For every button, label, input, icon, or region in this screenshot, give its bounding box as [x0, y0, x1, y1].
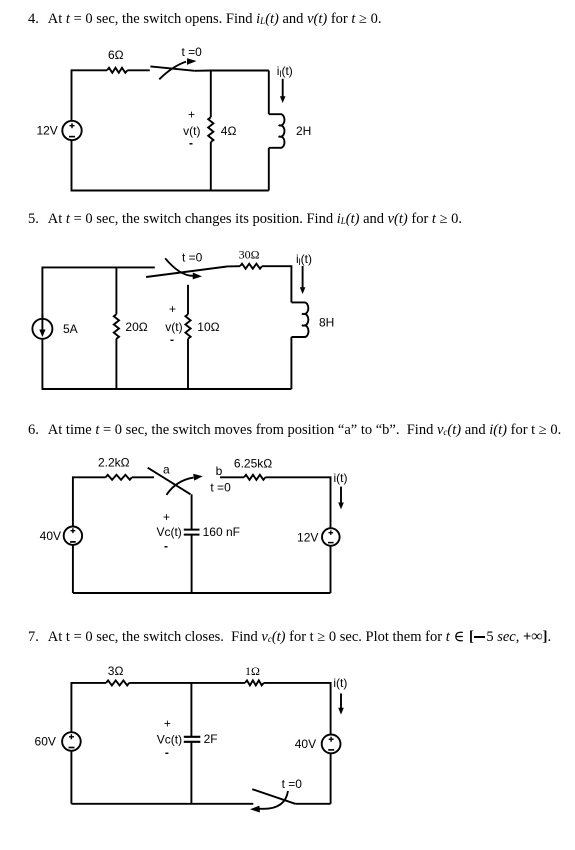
wire: capacitor branch upper P6: [191, 494, 193, 529]
voltage label v(t) with polarity P4: [183, 108, 200, 151]
value label 40V: [40, 529, 61, 543]
current arrow iL(t) P4: [280, 79, 286, 103]
resistor 4ohm: [208, 117, 213, 142]
value label 20ohm: [125, 320, 147, 334]
label t=0 P6: [210, 481, 231, 495]
svg-text:60V: 60V: [35, 735, 56, 749]
wire: top-right segment P5: [227, 265, 240, 267]
value label 40V P7: [295, 737, 316, 751]
wire: bottom P5: [42, 388, 292, 390]
svg-text:il(t): il(t): [296, 252, 312, 267]
svg-text:Vc(t): Vc(t): [157, 733, 182, 747]
wire: to right corner P5: [262, 266, 291, 302]
value label 2F: [204, 732, 218, 746]
label t=0 P7: [282, 777, 303, 791]
wire: 20ohm branch upper P5: [115, 267, 117, 314]
capacitor 2F: [184, 737, 201, 742]
svg-text:a: a: [163, 463, 170, 477]
wire: top middle segment P7: [129, 682, 245, 684]
wire: top-left segment P6: [73, 477, 106, 526]
current label i(t) P7: [333, 676, 347, 690]
wire: capacitor branch lower P7: [190, 742, 192, 804]
svg-text:+: +: [188, 108, 195, 122]
wire: bottom P4: [72, 140, 269, 190]
wire: switch lower contact stub P5: [187, 285, 189, 315]
switch SW4 (closes at t=0) P7: [250, 789, 295, 812]
wire: to switch contact a P6: [132, 476, 154, 478]
svg-text:Vc(t): Vc(t): [156, 525, 181, 539]
wire: top-right corner P7: [264, 683, 331, 735]
wire: left branch lower P6: [72, 545, 74, 593]
svg-text:12V: 12V: [36, 124, 57, 138]
wire: capacitor branch lower P6: [191, 535, 193, 593]
svg-text:t =0: t =0: [282, 777, 303, 791]
voltage source 40V: [64, 527, 82, 545]
svg-text:40V: 40V: [295, 737, 316, 751]
voltage source 12V P6: [322, 528, 340, 546]
wire: top-left segment P4: [72, 70, 108, 121]
wire: right branch lower P4: [268, 148, 270, 191]
svg-text:160 nF: 160 nF: [203, 525, 240, 539]
wire: left branch lower P5: [41, 339, 43, 389]
inductor 8H: [291, 302, 308, 337]
resistor 2.2kohm: [106, 475, 132, 480]
value label 3ohm: [108, 664, 124, 678]
svg-text:+: +: [164, 717, 171, 731]
wire: right branch upper P4: [268, 71, 270, 115]
wire: to switch contact P4: [127, 69, 150, 71]
svg-text:il(t): il(t): [277, 64, 293, 79]
svg-text:-: -: [164, 539, 168, 553]
svg-text:20Ω: 20Ω: [125, 320, 147, 334]
value label 60V: [35, 735, 56, 749]
inductor 2H: [269, 114, 285, 148]
wire: bottom-left segment P7: [71, 803, 253, 805]
svg-text:8H: 8H: [319, 316, 334, 330]
voltage label Vc(t) with polarity P7: [157, 717, 182, 760]
current label iL(t) P4: [277, 64, 293, 79]
svg-text:1Ω: 1Ω: [245, 664, 260, 678]
current arrow i(t) P7: [338, 693, 344, 714]
svg-text:b: b: [216, 464, 223, 478]
wire: top-right segment P6: [265, 477, 330, 528]
svg-text:3Ω: 3Ω: [108, 664, 124, 678]
resistor 10ohm: [185, 314, 190, 338]
svg-text:10Ω: 10Ω: [197, 320, 219, 334]
svg-text:6.25kΩ: 6.25kΩ: [234, 457, 272, 471]
svg-text:i(t): i(t): [334, 471, 348, 485]
current label i(t) P6: [334, 471, 348, 485]
value label 6ohm: [108, 48, 124, 62]
current arrow iL(t) P5: [300, 266, 306, 294]
wire: bottom-right segment P7: [295, 803, 330, 805]
svg-text:2F: 2F: [204, 732, 218, 746]
value label 12V P6: [297, 530, 318, 544]
current source 5A: [32, 314, 52, 339]
wire: right branch lower P7: [330, 753, 332, 804]
svg-text:5A: 5A: [63, 322, 78, 336]
resistor 6.25kohm: [244, 475, 265, 480]
node b: [216, 464, 223, 478]
capacitor 160nF: [184, 530, 200, 535]
value label 6.25kohm: [234, 457, 272, 471]
svg-text:+: +: [163, 510, 170, 524]
switch SW1 (opens at t=0) P4: [150, 58, 196, 79]
svg-text:t =0: t =0: [182, 251, 203, 265]
voltage source 60V: [62, 732, 81, 751]
value label 2H: [296, 124, 311, 138]
value label 160nF: [203, 525, 240, 539]
svg-text:t =0: t =0: [210, 481, 231, 495]
svg-text:4Ω: 4Ω: [221, 124, 237, 138]
wire: right branch lower P5: [290, 337, 292, 389]
value label 1ohm: [245, 664, 260, 678]
value label 10ohm: [197, 320, 219, 334]
svg-text:t =0: t =0: [182, 45, 203, 59]
svg-text:i(t): i(t): [333, 676, 347, 690]
svg-text:40V: 40V: [40, 529, 61, 543]
resistor 3ohm: [106, 680, 129, 685]
svg-text:2H: 2H: [296, 124, 311, 138]
wire: 10ohm lower P5: [187, 339, 189, 389]
label t=0 P4: [182, 45, 203, 59]
value label 12V: [36, 124, 57, 138]
svg-text:6Ω: 6Ω: [108, 48, 124, 62]
voltage label Vc(t) with polarity P6: [156, 510, 181, 553]
wire: top-right segment P4: [195, 70, 269, 72]
wire: top-left segment P7: [71, 683, 106, 732]
voltage label v(t) with polarity P5: [165, 302, 182, 347]
wire: bottom P6: [73, 592, 331, 594]
value label 4ohm: [221, 124, 237, 138]
wire: middle branch lower P4: [210, 142, 212, 191]
svg-text:-: -: [189, 136, 193, 150]
value label 2.2kohm: [98, 456, 130, 470]
svg-text:12V: 12V: [297, 530, 318, 544]
label t=0 P5: [182, 251, 203, 265]
switch SW2 (changes position at t=0) P5: [146, 258, 227, 279]
svg-text:+: +: [169, 302, 176, 316]
resistor 1ohm: [245, 680, 264, 685]
wire: left branch lower P7: [70, 751, 72, 804]
wire: 20ohm branch lower P5: [115, 339, 117, 389]
voltage source 12V: [62, 121, 81, 140]
wire: contact b stub P6: [220, 476, 244, 478]
wire: capacitor branch upper P7: [190, 683, 192, 737]
value label 5A: [63, 322, 78, 336]
current label iL(t) P5: [296, 252, 312, 267]
svg-text:2.2kΩ: 2.2kΩ: [98, 456, 130, 470]
wire: middle branch upper P4: [210, 71, 212, 118]
wire: left branch P5: [42, 267, 154, 318]
node a: [163, 463, 170, 477]
current arrow i(t) P6: [338, 487, 344, 510]
resistor 30ohm: [240, 264, 262, 269]
resistor 20ohm: [114, 314, 119, 338]
svg-text:-: -: [165, 746, 169, 760]
svg-text:30Ω: 30Ω: [239, 248, 260, 262]
svg-text:-: -: [170, 333, 174, 347]
switch SW3 (moves from a to b at t=0) P6: [148, 468, 203, 495]
voltage source 40V P7: [322, 735, 341, 754]
resistor 6ohm: [107, 68, 127, 73]
value label 8H: [319, 316, 334, 330]
value label 30ohm: [239, 248, 260, 262]
wire: right branch lower P6: [330, 546, 332, 593]
